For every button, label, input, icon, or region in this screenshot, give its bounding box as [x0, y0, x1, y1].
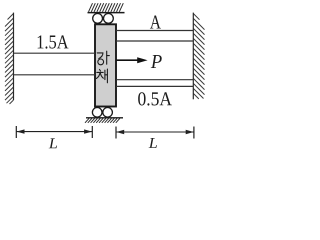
hangul glyph GANG (강)	[97, 51, 109, 65]
right dimension arrowhead left	[116, 130, 124, 134]
ceiling hatching	[89, 3, 124, 12]
rigid column (gray body)	[95, 24, 116, 106]
right dimension arrowhead right	[186, 130, 194, 134]
label 0.5A	[138, 92, 172, 105]
ground hatching	[85, 118, 120, 122]
right wall face	[192, 13, 194, 100]
bar 0.5A bottom edge	[116, 85, 193, 87]
left dimension line	[16, 131, 92, 133]
left dimension extension tick left	[15, 126, 17, 138]
left dimension arrowhead left	[17, 129, 25, 133]
right dimension line	[116, 131, 194, 133]
bar 1.5A bottom edge	[14, 74, 96, 76]
left dimension extension tick right	[91, 126, 93, 138]
right dimension extension tick left	[115, 127, 117, 139]
label L left	[49, 138, 57, 148]
ceiling line	[88, 12, 125, 14]
ground line	[86, 117, 123, 119]
bar A top edge	[116, 30, 193, 32]
top roller left	[93, 14, 103, 24]
left wall face	[13, 13, 15, 100]
left wall hatching	[5, 14, 14, 105]
label L right	[149, 138, 157, 148]
label A	[150, 16, 161, 29]
right dimension extension tick right	[193, 127, 195, 139]
bar 1.5A top edge	[14, 52, 96, 54]
label 1.5A	[38, 35, 69, 48]
force arrow P	[117, 57, 148, 63]
top roller right	[104, 14, 114, 24]
bar 0.5A top edge	[116, 79, 193, 81]
bottom roller right	[103, 108, 113, 118]
label P	[151, 55, 162, 68]
bar A bottom edge	[116, 40, 193, 42]
hangul glyph CHE (체)	[97, 69, 108, 83]
left dimension arrowhead right	[84, 129, 92, 133]
bottom roller left	[92, 108, 102, 118]
right wall hatching	[193, 14, 204, 99]
